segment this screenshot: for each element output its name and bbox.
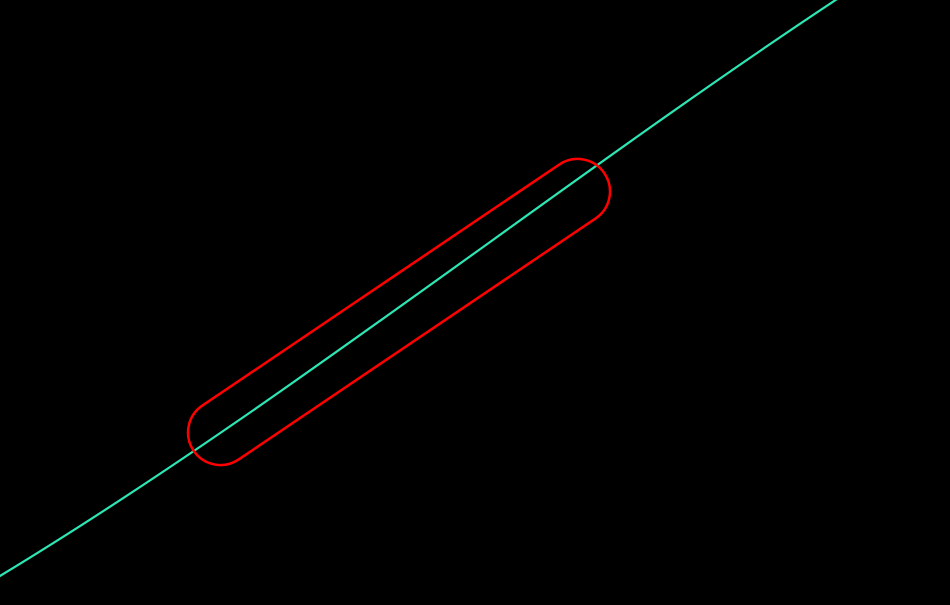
red capsule annotation bbox=[175, 146, 622, 477]
